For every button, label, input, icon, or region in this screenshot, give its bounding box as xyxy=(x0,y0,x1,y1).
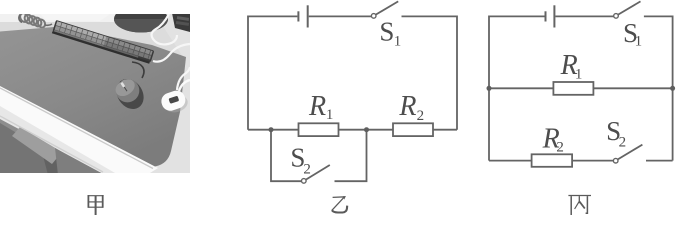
background / desk xyxy=(0,14,190,174)
wire right rail lower xyxy=(672,88,674,160)
svg-text:2: 2 xyxy=(619,134,627,150)
white device (receiver/mouse) xyxy=(163,93,190,115)
wire top-left segment xyxy=(489,16,545,88)
svg-text:2: 2 xyxy=(303,161,311,177)
wire top-left segment xyxy=(248,16,297,129)
node dot D xyxy=(670,86,675,91)
wire left rail lower xyxy=(488,88,490,160)
wire R1 to R2 xyxy=(339,129,394,131)
svg-text:1: 1 xyxy=(635,34,643,50)
node dot B xyxy=(364,127,369,132)
desk white strip bottom-left xyxy=(0,82,158,173)
svg-text:R: R xyxy=(398,91,416,122)
dark object top-right corner xyxy=(172,13,190,32)
svg-text:1: 1 xyxy=(394,34,402,50)
keyboard xyxy=(52,20,154,64)
floor xyxy=(0,119,105,175)
resistor R1 xyxy=(299,123,339,136)
wire middle row left xyxy=(248,129,299,131)
wire battery to switch S1 xyxy=(555,15,613,17)
label 丙 xyxy=(568,196,591,216)
wire switch S1 to right rail xyxy=(644,16,673,88)
wire switch S2 to right rail xyxy=(646,160,673,162)
white cables right xyxy=(152,14,190,90)
svg-text:R: R xyxy=(308,91,326,122)
dark round object top-center xyxy=(114,6,168,33)
svg-text:2: 2 xyxy=(556,140,564,156)
wire switch S1 to right rail xyxy=(402,16,458,129)
switch S2 xyxy=(613,158,618,163)
svg-text:1: 1 xyxy=(575,67,583,83)
switch S1 xyxy=(614,14,619,19)
resistor R2 xyxy=(393,123,433,136)
battery B1 xyxy=(298,5,307,27)
resistor R2 xyxy=(532,154,573,167)
coiled cable top-left xyxy=(19,12,47,29)
node dot A xyxy=(269,127,274,132)
wire S2 branch right xyxy=(335,130,367,182)
mouse pad xyxy=(0,27,186,167)
wire middle row left xyxy=(489,87,553,89)
switch S2 xyxy=(302,179,307,184)
label 乙 xyxy=(332,196,347,212)
svg-text:2: 2 xyxy=(417,108,425,124)
wire R2 to right rail xyxy=(433,129,457,131)
wire battery to switch S1 xyxy=(309,15,372,17)
svg-text:S: S xyxy=(379,17,394,47)
dark mouse xyxy=(111,74,149,114)
battery B2 xyxy=(546,5,555,27)
node dot C xyxy=(487,86,492,91)
dark cable from keyboard to mouse xyxy=(132,62,144,78)
switch S1 xyxy=(371,14,376,19)
wire bottom row left xyxy=(489,160,532,162)
resistor R1 xyxy=(553,82,593,95)
wire R2 to switch S2 xyxy=(572,160,613,162)
right desk light area xyxy=(110,14,190,173)
wire R1 to right rail xyxy=(593,87,672,89)
wire S2 branch left xyxy=(271,130,301,182)
svg-text:1: 1 xyxy=(326,107,334,123)
label 甲 xyxy=(88,195,104,215)
